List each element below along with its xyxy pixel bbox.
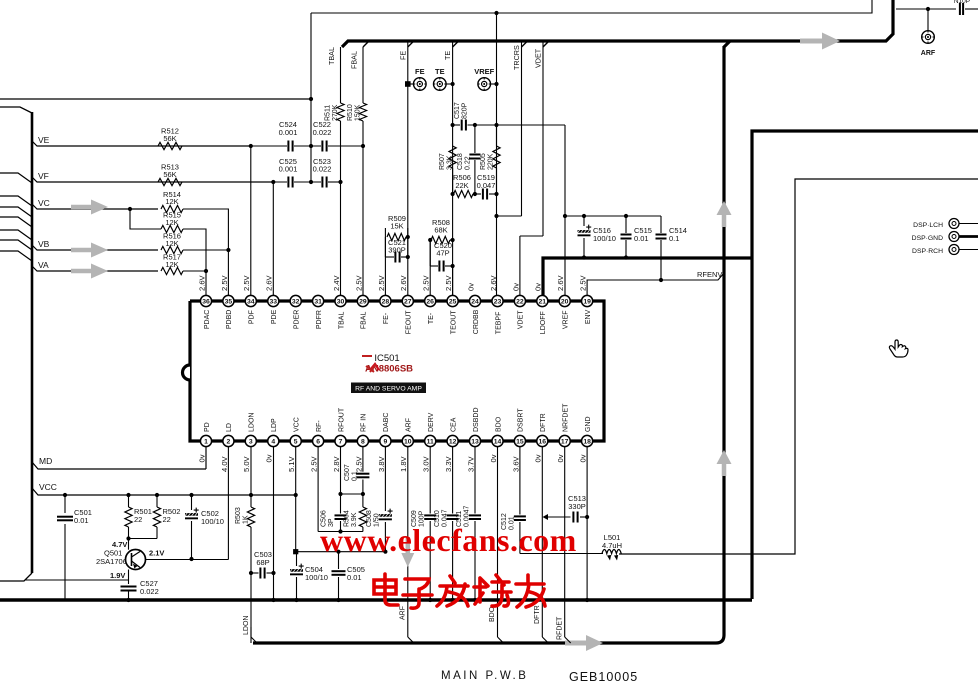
thick right rail y131 to right edge — [752, 131, 978, 599]
op-amp IC501 AN8806SB outline — [183, 301, 605, 441]
wire VA — [32, 260, 158, 271]
resistor R516 — [161, 232, 183, 254]
wire Q501 emitter / left line y580 — [25, 570, 129, 585]
svg-text:6: 6 — [316, 439, 320, 446]
wire VF — [32, 171, 273, 182]
transistor Q501 — [96, 536, 192, 580]
svg-text:33: 33 — [270, 299, 278, 306]
svg-text:3: 3 — [249, 439, 253, 446]
svg-text:0v: 0v — [197, 454, 206, 462]
svg-text:5: 5 — [294, 439, 298, 446]
thick ground rail y258 LDOFF — [543, 258, 752, 296]
pin 17 NRFDET bottom — [556, 403, 570, 463]
svg-text:2SA1706: 2SA1706 — [96, 557, 127, 566]
hand cursor icon — [889, 340, 908, 357]
svg-text:330P: 330P — [568, 502, 586, 511]
pin 10 ARF bottom — [399, 418, 413, 472]
svg-text:2.8V: 2.8V — [332, 455, 341, 472]
node TRCRS vertical — [512, 41, 522, 216]
svg-text:56K: 56K — [163, 170, 176, 179]
wire ARF top right — [896, 7, 956, 31]
pin 31 PDFR top — [313, 295, 324, 329]
svg-text:2.5V: 2.5V — [354, 455, 363, 472]
pin 18 GND bottom — [579, 416, 593, 462]
svg-text:RF AND SERVO AMP: RF AND SERVO AMP — [355, 386, 422, 393]
wire C516 top rail — [563, 214, 661, 218]
pin 29 FBAL top — [354, 274, 368, 329]
svg-text:VB: VB — [38, 239, 50, 249]
capacitor C513 — [543, 494, 590, 523]
svg-text:BDO: BDO — [495, 416, 502, 432]
pin 8 RF IN bottom — [354, 414, 368, 472]
svg-text:PD: PD — [204, 422, 211, 432]
thick ground rail y600 — [0, 598, 752, 601]
pin 5 VCC bottom — [287, 417, 301, 472]
svg-text:21: 21 — [539, 299, 547, 306]
svg-text:47P: 47P — [436, 249, 449, 258]
svg-text:DERV: DERV — [428, 412, 435, 432]
svg-text:ENV: ENV — [585, 309, 592, 324]
svg-text:TBAL: TBAL — [327, 47, 336, 65]
pin 36 PDAC top — [197, 274, 211, 329]
svg-text:RFOUT: RFOUT — [338, 407, 345, 432]
pin 12 CEA bottom — [444, 417, 458, 472]
svg-text:ARF: ARF — [921, 50, 936, 57]
svg-text:C517: C517 — [454, 102, 461, 119]
svg-text:PDBD: PDBD — [226, 310, 233, 329]
svg-text:23: 23 — [494, 299, 502, 306]
capacitor C519 — [475, 173, 499, 200]
svg-text:24: 24 — [471, 299, 479, 306]
svg-text:CEA: CEA — [450, 417, 457, 432]
pin 25 TEOUT top — [444, 274, 458, 334]
capacitor C508 electrolytic (in pin9 line) — [366, 447, 393, 554]
svg-text:VA: VA — [38, 260, 49, 270]
capacitor C512 (in pin15 line) — [501, 447, 526, 554]
svg-text:LDOFF: LDOFF — [540, 311, 547, 334]
svg-text:RF IN: RF IN — [361, 414, 368, 432]
svg-text:ARF: ARF — [406, 418, 413, 432]
pin 6 RF- bottom — [310, 420, 324, 472]
grey up arrow on bus (upper) — [717, 201, 732, 227]
resistor R503 — [235, 447, 255, 643]
svg-text:0v: 0v — [265, 454, 274, 462]
svg-text:3.7V: 3.7V — [466, 455, 475, 472]
wire Q501 collector to pin2 LD — [192, 447, 229, 560]
svg-text:2.5V: 2.5V — [242, 274, 251, 291]
grey arrow VC — [71, 200, 108, 215]
svg-text:820P: 820P — [462, 102, 469, 119]
grey down arrow on ARF line — [401, 537, 414, 567]
svg-text:3.3K: 3.3K — [447, 155, 454, 170]
wire VC — [32, 198, 158, 209]
capacitor top right (N10P) — [954, 0, 978, 15]
resistor R504 (in pin8 line) — [341, 507, 367, 532]
svg-text:RFDET: RFDET — [557, 616, 564, 640]
svg-text:DSP·RCH: DSP·RCH — [912, 248, 943, 255]
svg-text:BDO: BDO — [489, 606, 496, 622]
svg-text:19: 19 — [583, 299, 591, 306]
svg-text:FE: FE — [398, 51, 407, 60]
svg-text:R507: R507 — [439, 153, 446, 170]
connector DSP-RCH — [912, 245, 978, 256]
svg-text:PDF: PDF — [249, 310, 256, 324]
svg-text:22: 22 — [163, 515, 171, 524]
pin 9 DABC bottom — [377, 413, 391, 472]
svg-text:100/10: 100/10 — [305, 573, 328, 582]
pin 35 PDBD top — [220, 274, 234, 329]
svg-text:0.1: 0.1 — [669, 234, 679, 243]
svg-text:22: 22 — [134, 515, 142, 524]
pin 32 PDER top — [290, 295, 301, 329]
svg-text:15K: 15K — [390, 222, 403, 231]
node VREF vertical x496 — [496, 13, 498, 194]
capacitor C514 — [656, 216, 687, 280]
svg-text:5.0V: 5.0V — [242, 455, 251, 472]
wire VE — [32, 135, 250, 146]
svg-text:DSBRT: DSBRT — [518, 408, 525, 432]
wire pin34 to VE — [250, 146, 252, 295]
svg-text:2.5V: 2.5V — [310, 455, 319, 472]
svg-text:12: 12 — [449, 439, 457, 446]
pin 22 VDET top — [511, 283, 525, 329]
svg-text:IC501: IC501 — [374, 353, 399, 364]
svg-text:DSP·LCH: DSP·LCH — [913, 222, 943, 229]
svg-text:0.1: 0.1 — [352, 471, 359, 481]
svg-text:0.001: 0.001 — [279, 165, 298, 174]
svg-text:C507: C507 — [344, 464, 351, 481]
wire RFENV from ENV pin19 — [587, 270, 724, 295]
grey arrow VB — [71, 243, 108, 258]
pin 13 DSBDD bottom — [466, 407, 480, 472]
svg-text:RF-: RF- — [316, 420, 323, 432]
svg-text:DABC: DABC — [383, 413, 390, 432]
svg-text:1K: 1K — [243, 515, 250, 524]
svg-text:VREF: VREF — [474, 67, 494, 76]
svg-text:R503: R503 — [235, 507, 242, 524]
pin 16 DFTR bottom — [534, 413, 548, 462]
svg-text:LD: LD — [226, 423, 233, 432]
capacitor C522 — [294, 120, 365, 152]
svg-text:390P: 390P — [388, 246, 406, 255]
capacitor C515 — [621, 216, 652, 260]
wire pin4 LDP to ground — [271, 447, 275, 602]
capacitor C516 electrolytic — [578, 216, 616, 260]
grey up arrow on bus (lower) — [717, 450, 732, 476]
svg-text:15: 15 — [516, 439, 524, 446]
svg-text:0.022: 0.022 — [140, 587, 159, 596]
svg-text:7: 7 — [339, 439, 343, 446]
capacitor C510 (in pin12 line) — [434, 447, 459, 602]
svg-text:2.6V: 2.6V — [265, 274, 274, 291]
svg-text:100/10: 100/10 — [201, 517, 224, 526]
wire top-left horizontal — [0, 98, 311, 100]
svg-text:20: 20 — [561, 299, 569, 306]
svg-text:R510: R510 — [347, 104, 354, 121]
pin 23 TEBPF top — [489, 274, 503, 334]
svg-text:11: 11 — [427, 439, 434, 446]
svg-text:2.1V: 2.1V — [149, 549, 164, 558]
svg-text:PDE: PDE — [271, 309, 278, 324]
svg-text:17: 17 — [561, 439, 569, 446]
svg-text:12K: 12K — [165, 239, 178, 248]
test point TE — [434, 41, 455, 295]
svg-text:12K: 12K — [165, 260, 178, 269]
DSP box — [619, 179, 978, 554]
svg-text:0.001: 0.001 — [279, 128, 298, 137]
svg-text:DSP·GND: DSP·GND — [912, 235, 943, 242]
svg-text:32: 32 — [292, 299, 300, 306]
svg-text:12K: 12K — [165, 197, 178, 206]
pin 33 PDE top — [265, 274, 279, 324]
svg-text:LDON: LDON — [243, 616, 250, 635]
svg-text:34: 34 — [247, 299, 255, 306]
svg-text:5.1V: 5.1V — [287, 455, 296, 472]
svg-text:FBAL: FBAL — [361, 312, 368, 330]
svg-text:FEOUT: FEOUT — [406, 310, 413, 334]
svg-text:3.3V: 3.3V — [444, 455, 453, 472]
svg-text:TEBPF: TEBPF — [495, 312, 502, 335]
svg-text:R511: R511 — [325, 105, 332, 121]
wire TEOUT down to pin25 — [452, 266, 454, 295]
svg-text:VREF: VREF — [563, 310, 570, 329]
svg-text:PDER: PDER — [294, 310, 301, 329]
wire pin18 GND to ground — [585, 447, 589, 602]
capacitor C507 (in pin8 line) — [344, 447, 369, 507]
svg-text:26: 26 — [426, 299, 434, 306]
svg-text:VDET: VDET — [518, 310, 525, 329]
svg-text:LDP: LDP — [271, 418, 278, 432]
svg-text:VCC: VCC — [294, 417, 301, 432]
svg-text:2.5V: 2.5V — [444, 274, 453, 291]
wire pin5 VCC vertical — [293, 447, 298, 554]
pin 26 TE- top — [422, 274, 436, 324]
svg-text:TE: TE — [443, 51, 452, 60]
svg-text:9: 9 — [384, 439, 388, 446]
svg-text:0.01: 0.01 — [634, 234, 649, 243]
svg-text:1.8V: 1.8V — [399, 455, 408, 472]
svg-text:MAIN P.W.B: MAIN P.W.B — [441, 670, 528, 682]
svg-text:8: 8 — [361, 439, 365, 446]
red mark near IC501 — [362, 356, 376, 372]
svg-text:0v: 0v — [534, 283, 543, 291]
pin 24 CRDBB top — [466, 283, 480, 334]
svg-text:13: 13 — [471, 439, 479, 446]
svg-text:36: 36 — [202, 299, 210, 306]
svg-text:18: 18 — [583, 439, 591, 446]
svg-text:VCC: VCC — [39, 482, 57, 492]
wire TEBPF step from TRCRS — [494, 194, 521, 295]
capacitor C517 — [451, 102, 566, 130]
svg-text:CRDBB: CRDBB — [473, 309, 480, 334]
svg-text:0.022: 0.022 — [313, 128, 332, 137]
svg-text:C518: C518 — [457, 153, 464, 170]
svg-text:PDAC: PDAC — [204, 310, 211, 329]
svg-text:2: 2 — [227, 439, 231, 446]
svg-text:LDON: LDON — [249, 413, 256, 432]
resistor R509 with capacitor C521 (FE- to FEOUT) — [385, 214, 410, 295]
svg-text:0.047: 0.047 — [477, 181, 496, 190]
svg-text:14: 14 — [494, 439, 502, 446]
svg-text:270K: 270K — [332, 104, 339, 121]
svg-text:1: 1 — [204, 439, 208, 446]
svg-text:30: 30 — [337, 299, 345, 306]
inductor L501 — [602, 533, 622, 561]
thick vertical bus x724 — [253, 41, 730, 643]
pin 27 FEOUT top — [399, 274, 413, 334]
resistor R502 — [153, 493, 180, 539]
svg-text:0v: 0v — [466, 283, 475, 291]
svg-text:22K: 22K — [455, 181, 468, 190]
svg-text:29: 29 — [359, 299, 367, 306]
wire pin16 DFTR down to bus — [534, 447, 548, 643]
pin 4 LDP bottom — [265, 418, 279, 462]
grey arrow on bottom bus — [565, 635, 603, 651]
resistor R506 — [451, 168, 478, 198]
test point FE — [405, 41, 426, 295]
bottom bus stubs — [251, 627, 257, 643]
pin 21 LDOFF top — [534, 283, 548, 334]
resistor R505 — [480, 125, 500, 194]
svg-text:2.6V: 2.6V — [197, 274, 206, 291]
svg-text:0.01: 0.01 — [74, 516, 89, 525]
svg-text:27: 27 — [404, 299, 412, 306]
svg-text:0v: 0v — [489, 454, 498, 462]
svg-text:VF: VF — [38, 171, 49, 181]
capacitor C524 — [182, 120, 297, 152]
resistor R508 with capacitor C520 (TE- to TEOUT) — [428, 218, 455, 295]
svg-text:3.6V: 3.6V — [511, 455, 520, 472]
svg-text:www.elecfans.com: www.elecfans.com — [320, 522, 577, 558]
wire VCC rail — [32, 482, 295, 495]
svg-text:2.5V: 2.5V — [220, 274, 229, 291]
svg-text:GND: GND — [585, 416, 592, 432]
connector DSP-GND — [912, 232, 978, 243]
capacitor C511 (in pin13 line) — [456, 447, 481, 602]
pin 15 DSBRT bottom — [511, 408, 525, 472]
pin 1 PD bottom — [197, 422, 211, 462]
svg-text:35: 35 — [225, 299, 233, 306]
svg-text:NRFDET: NRFDET — [563, 403, 570, 432]
left input bus — [0, 107, 32, 581]
pin 7 RFOUT bottom — [332, 407, 346, 472]
svg-text:4.7uH: 4.7uH — [602, 541, 622, 550]
watermark chinese characters — [374, 574, 545, 608]
svg-text:28: 28 — [382, 299, 390, 306]
pin 30 TBAL top — [332, 274, 346, 329]
pin 20 VREF top — [556, 274, 570, 329]
wire VB — [32, 239, 158, 250]
svg-text:VC: VC — [38, 198, 50, 208]
svg-text:2.6V: 2.6V — [399, 274, 408, 291]
svg-text:100/10: 100/10 — [593, 234, 616, 243]
wire pin33 to VF — [272, 182, 274, 295]
capacitor C527 — [121, 579, 159, 602]
svg-text:TBAL: TBAL — [338, 312, 345, 330]
wire pin14 BDO down to bus — [489, 447, 504, 643]
resistor R507 (in TEOUT line) — [439, 146, 456, 170]
svg-text:68P: 68P — [256, 558, 269, 567]
svg-text:220K: 220K — [488, 153, 495, 170]
capacitor C509 (in pin11 line) — [411, 447, 436, 602]
svg-text:31: 31 — [314, 299, 322, 306]
svg-text:DSBDD: DSBDD — [473, 407, 480, 432]
capacitor C503 — [249, 550, 276, 579]
svg-text:ARF: ARF — [400, 606, 407, 620]
svg-text:4.0V: 4.0V — [220, 455, 229, 472]
svg-text:2.4V: 2.4V — [332, 274, 341, 291]
resistor R501 — [125, 493, 152, 539]
pin 2 LD bottom — [220, 423, 234, 472]
pin 14 BDO bottom — [489, 416, 503, 462]
capacitor C523 — [294, 157, 343, 188]
connector DSP-LCH — [913, 219, 978, 230]
svg-text:RFENV: RFENV — [697, 270, 722, 279]
svg-text:0v: 0v — [534, 454, 543, 462]
svg-text:TRCRS: TRCRS — [512, 45, 521, 70]
resistor R512 — [158, 127, 182, 150]
svg-text:R505: R505 — [480, 153, 487, 170]
svg-text:VDET: VDET — [534, 48, 543, 68]
svg-text:2.5V: 2.5V — [377, 274, 386, 291]
test point ARF — [921, 31, 936, 57]
resistor R513 — [158, 163, 182, 186]
svg-text:DFTR: DFTR — [534, 605, 541, 624]
svg-text:MD: MD — [39, 456, 52, 466]
svg-text:DFTR: DFTR — [540, 413, 547, 432]
resistor R515 — [161, 211, 183, 233]
svg-text:TEOUT: TEOUT — [450, 310, 457, 334]
wire R514/R516 to pin35 — [183, 209, 230, 295]
svg-text:10: 10 — [404, 439, 412, 446]
thin line top y13 — [311, 0, 872, 15]
svg-text:FBAL: FBAL — [350, 51, 359, 69]
svg-text:0.022: 0.022 — [313, 165, 332, 174]
bus stubs FBAL/FE/TE/TRCRS/VDET — [363, 41, 549, 47]
svg-text:PDFR: PDFR — [316, 310, 323, 329]
svg-text:56K: 56K — [163, 134, 176, 143]
svg-text:0v: 0v — [556, 454, 565, 462]
svg-text:0.01: 0.01 — [347, 573, 362, 582]
IC501 centre labels — [351, 353, 426, 393]
wire pin6 RF- — [318, 447, 340, 532]
svg-text:0v: 0v — [579, 454, 588, 462]
wire y553 to L501 — [520, 553, 603, 555]
capacitor C525 — [182, 157, 297, 188]
svg-text:22: 22 — [516, 299, 524, 306]
svg-text:N10P: N10P — [954, 0, 970, 5]
node VDET vertical + step to pin22 — [520, 41, 543, 295]
resistor R514 — [161, 190, 183, 213]
wire VC jog to R515 — [128, 207, 161, 229]
svg-text:4: 4 — [271, 439, 275, 446]
svg-text:25: 25 — [449, 299, 457, 306]
wire pins7-8 join y494 — [341, 493, 363, 495]
svg-text:2.5V: 2.5V — [422, 274, 431, 291]
svg-text:TE: TE — [435, 67, 445, 76]
svg-text:0v: 0v — [511, 283, 520, 291]
capacitor C506 (in pin7 line) — [321, 447, 347, 534]
capacitor C502 electrolytic — [185, 493, 224, 561]
wire R515/R517 to pin36 — [183, 229, 208, 295]
svg-text:12K: 12K — [165, 218, 178, 227]
test point VREF — [474, 67, 498, 90]
pin 19 ENV top — [579, 274, 593, 324]
capacitor C518 — [457, 125, 480, 194]
grey arrow VA — [71, 264, 108, 279]
node junction x311 vertical — [309, 13, 313, 184]
svg-text:3.0V: 3.0V — [422, 455, 431, 472]
